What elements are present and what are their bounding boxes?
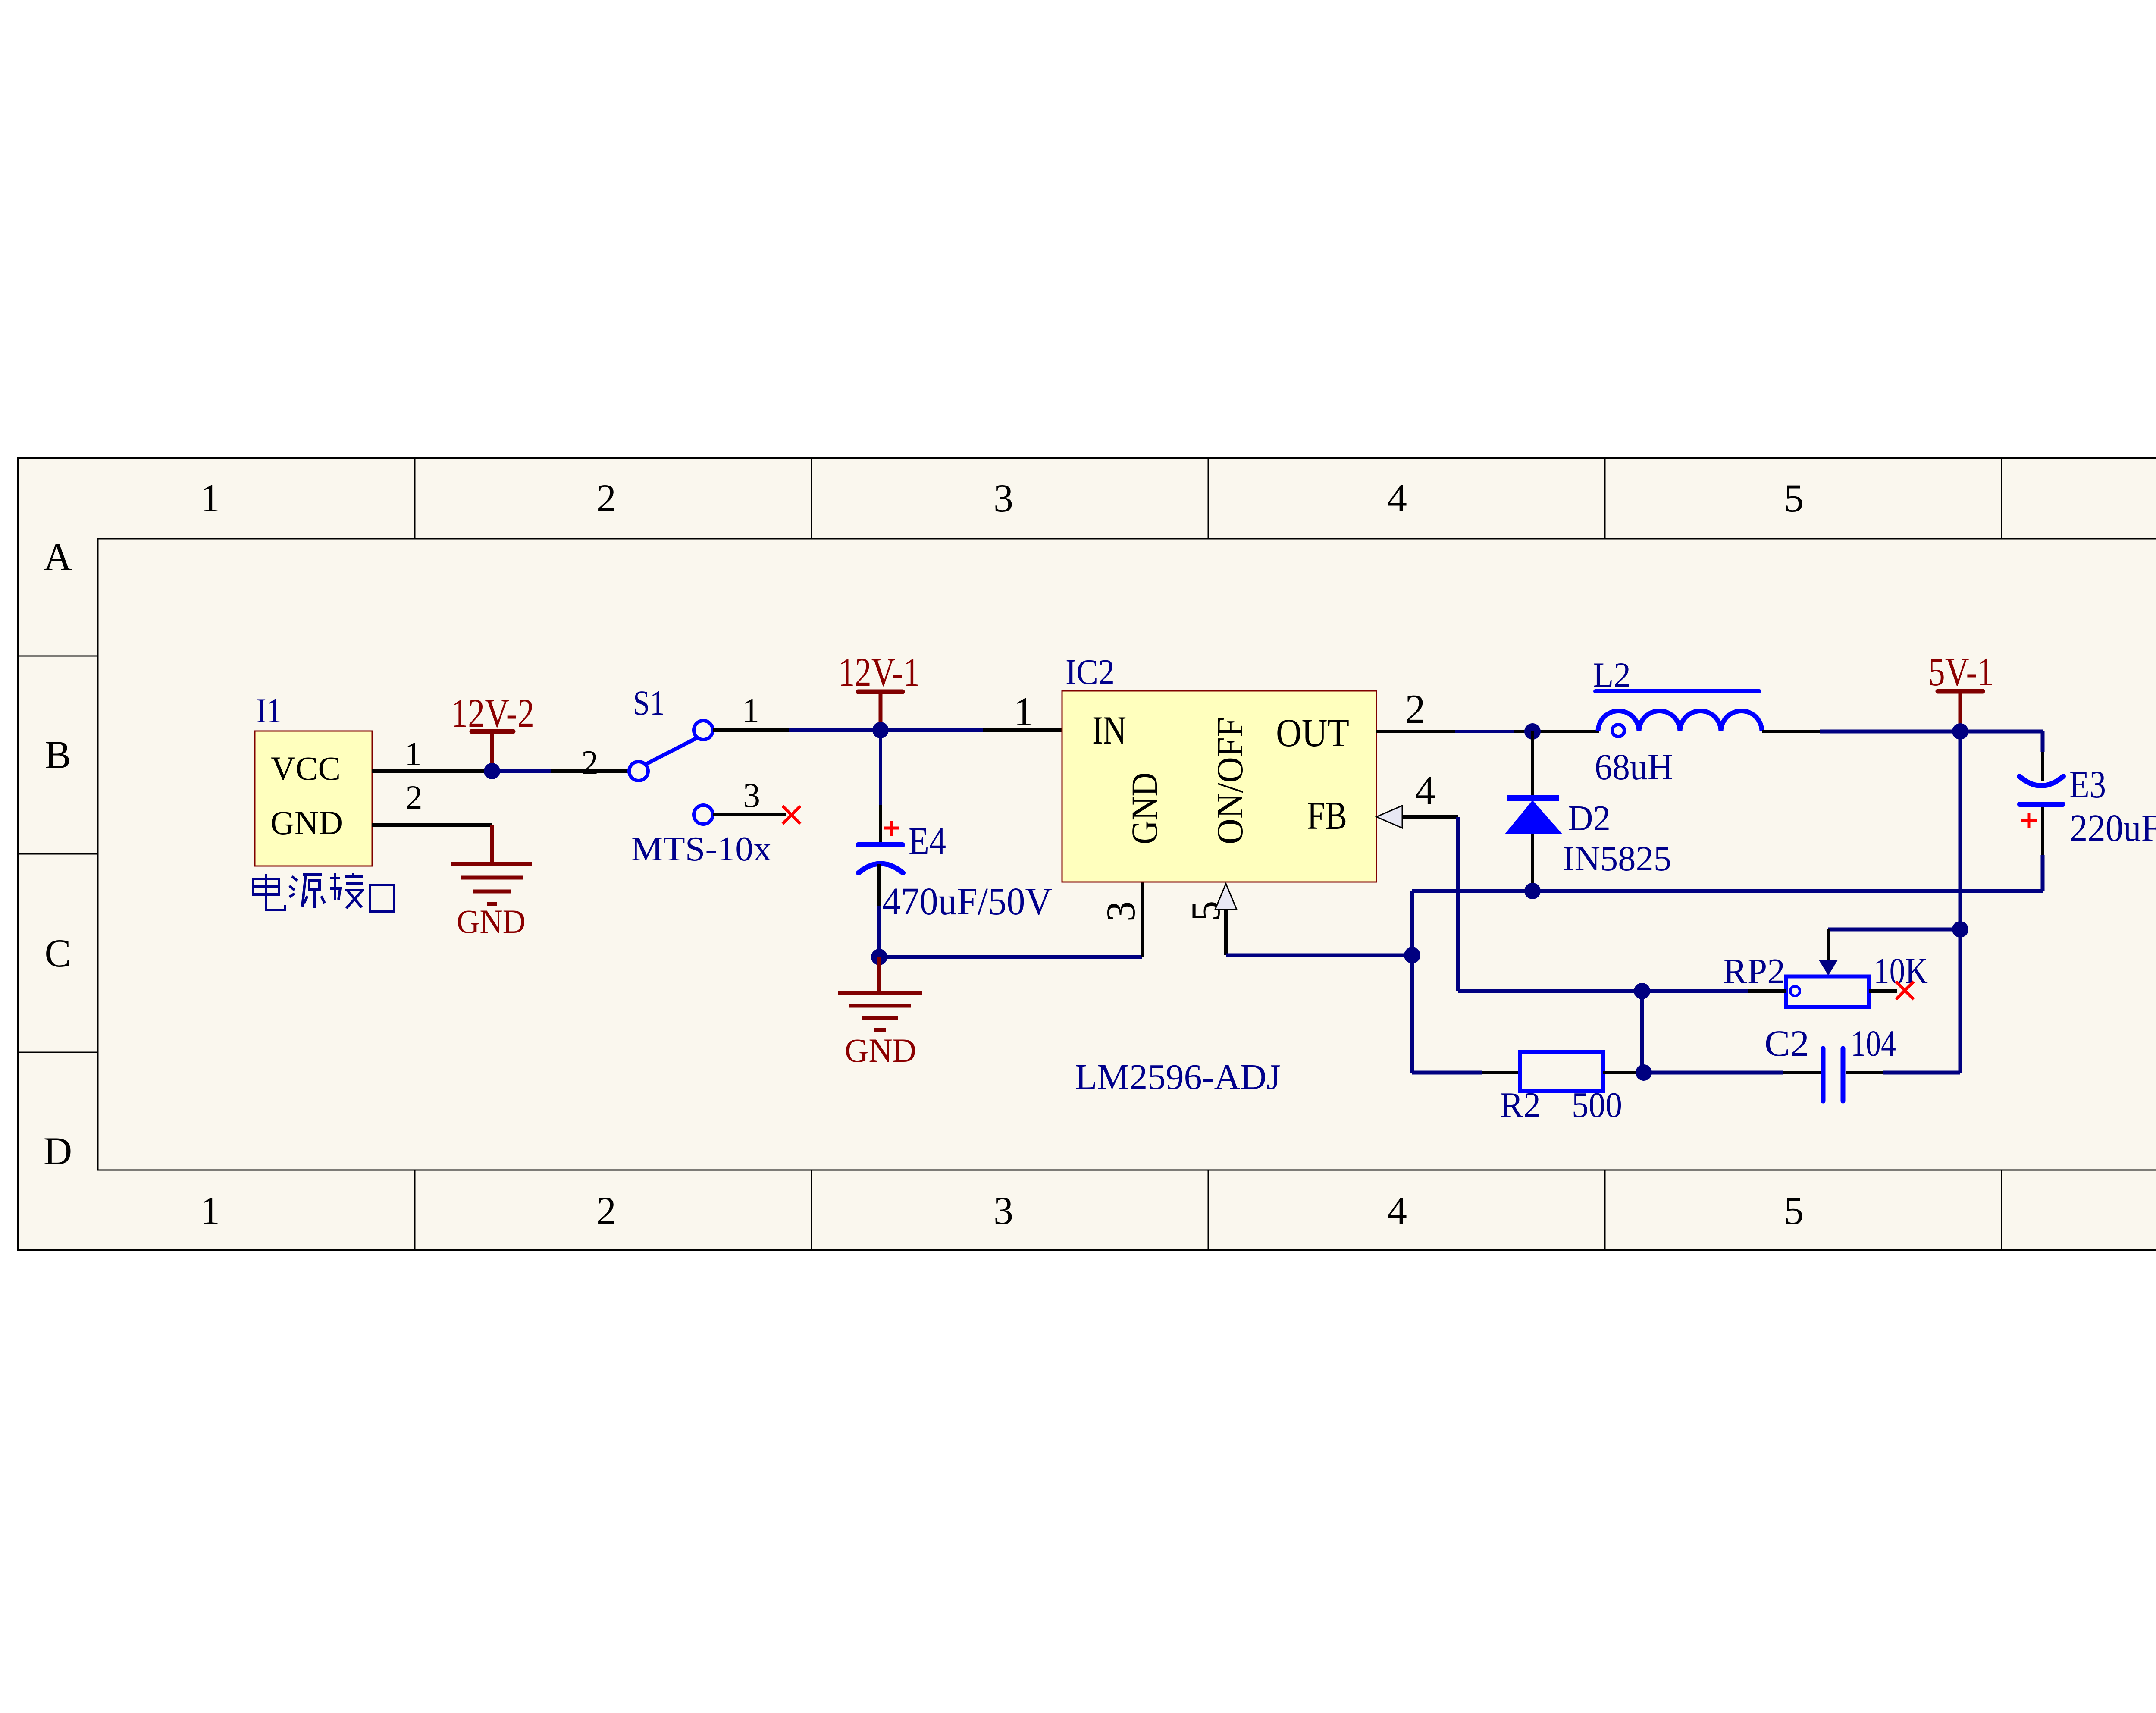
inner drawing border frame [98, 539, 2156, 1170]
wire RP2 wiper to 5V net [1828, 929, 1960, 962]
svg-text:4: 4 [1415, 768, 1435, 813]
wire 5V-1 node down to C2 net [1959, 731, 1962, 1073]
svg-text:OUT: OUT [1276, 711, 1349, 755]
diode D2 cathode bar [1507, 795, 1559, 801]
svg-text:GND: GND [845, 1032, 916, 1069]
wire D2 cathode stub [1531, 731, 1534, 797]
svg-text:MTS-10x: MTS-10x [631, 830, 771, 868]
diode D2 designator label [1568, 798, 1611, 838]
capacitor C2 value label 104 [1851, 1023, 1896, 1064]
power net label 5V-1 [1928, 649, 1994, 694]
svg-text:IN5825: IN5825 [1563, 839, 1671, 878]
diode D2 triangle [1506, 801, 1561, 834]
switch S1 pin1 terminal [694, 721, 713, 740]
capacitor E4 plus sign [884, 821, 899, 836]
wire 12V-1 junction to IC2 IN pin [881, 728, 1062, 732]
IC2 pin name GND (rotated) [1124, 772, 1165, 844]
capacitor E3 designator label [2069, 763, 2106, 806]
junction at 5V-1 node [1952, 723, 1968, 740]
no-connect X at RP2 [1896, 982, 1914, 999]
frame column labels bottom [200, 1189, 2156, 1233]
frame column labels top [200, 476, 2156, 520]
connector I1 pin number 2 [406, 778, 423, 816]
connector I1 pin name VCC [271, 750, 341, 787]
junction at OUT/D2 node [1524, 723, 1541, 740]
svg-text:C2: C2 [1764, 1023, 1809, 1064]
connector I1 body [255, 731, 372, 866]
svg-text:2: 2 [596, 476, 616, 520]
svg-text:GND: GND [1124, 772, 1165, 844]
wire FB node down to R2 output node [1640, 991, 1644, 1073]
wire R2 right to junction [1603, 1071, 1644, 1074]
switch S1 lever [642, 737, 699, 766]
svg-text:5V-1: 5V-1 [1928, 649, 1994, 694]
wire ground-net vertical (left) [1410, 891, 1414, 1073]
ground symbol at I1 [451, 825, 532, 904]
svg-text:D2: D2 [1568, 798, 1611, 838]
svg-text:1: 1 [742, 692, 759, 730]
resistor R2 body [1520, 1052, 1603, 1091]
wire R2 junction to C2 left plate [1644, 1071, 1821, 1075]
power symbol 12V-2 [472, 731, 513, 769]
IC2 pin number 4 [1415, 768, 1435, 813]
potentiometer RP2 wiper arrow [1819, 960, 1838, 976]
frame column ticks bottom [415, 1170, 2002, 1250]
switch S1 pin number 3 [743, 777, 760, 815]
svg-text:I1: I1 [256, 691, 282, 730]
IC2 FB input arrow (pin 4) [1376, 806, 1402, 828]
svg-text:C: C [44, 931, 71, 975]
ground symbol at E4 [838, 957, 922, 1030]
svg-text:R2: R2 [1500, 1085, 1541, 1125]
svg-text:5: 5 [1784, 476, 1804, 520]
svg-text:3: 3 [993, 476, 1013, 520]
regulator IC2 body [1062, 691, 1376, 882]
svg-text:3: 3 [1098, 901, 1144, 922]
svg-text:12V-2: 12V-2 [451, 691, 534, 736]
wire I1 pin2 to ground [372, 823, 492, 827]
svg-text:2: 2 [1405, 686, 1426, 732]
junction at R2/C2 node [1636, 1064, 1652, 1081]
svg-text:500: 500 [1572, 1085, 1622, 1125]
comment label 电源接口 (power interface) [253, 873, 394, 912]
capacitor E3 top curved plate [2019, 776, 2063, 786]
junction at D2 anode node [1524, 883, 1541, 899]
capacitor E4 value label 470uF/50V [882, 880, 1052, 923]
svg-text:2: 2 [596, 1189, 616, 1233]
svg-text:LM2596-ADJ: LM2596-ADJ [1075, 1057, 1281, 1097]
capacitor E3 bottom plate [2020, 802, 2063, 807]
capacitor C2 left plate [1821, 1048, 1826, 1101]
svg-text:L2: L2 [1593, 655, 1631, 694]
wire FB pin stub [1402, 815, 1458, 819]
IC2 pin name OUT [1276, 711, 1349, 755]
switch S1 pin3 terminal [694, 805, 713, 824]
switch S1 designator label [633, 683, 665, 722]
wire S1 pin1 to 12V-1 junction [713, 728, 881, 732]
potentiometer RP2 body [1786, 976, 1869, 1007]
junction at 12V-1 node [872, 722, 889, 738]
IC2 ON/OFF input arrow (pin 5) [1215, 884, 1237, 910]
power net label 12V-2 [451, 691, 534, 736]
svg-text:E4: E4 [909, 820, 946, 863]
wire E3 top stub [2041, 731, 2045, 781]
svg-text:3: 3 [993, 1189, 1013, 1233]
IC2 pin number 3 (rotated) [1098, 901, 1144, 922]
svg-text:B: B [44, 733, 71, 777]
inductor L2 polarity dot [1612, 725, 1624, 737]
frame column ticks top [415, 458, 2002, 539]
svg-text:A: A [44, 535, 72, 579]
inductor L2 designator label [1593, 655, 1631, 694]
connector I1 pin name GND [270, 804, 343, 841]
potentiometer RP2 value label 10K [1874, 950, 1928, 991]
svg-text:2: 2 [406, 778, 423, 816]
svg-text:VCC: VCC [271, 750, 341, 787]
wire ground-net to R2 left [1412, 1071, 1520, 1075]
frame row labels left [44, 535, 72, 1173]
wire L2 to 5V-1 junction and E3 corner [1762, 730, 2043, 733]
resistor R2 value label 500 [1572, 1085, 1622, 1125]
svg-text:E3: E3 [2069, 763, 2106, 806]
capacitor C2 designator label [1764, 1023, 1809, 1064]
wire D2 anode / E3 negative horizontal net [1412, 889, 2043, 893]
junction at 12V-2 node [484, 763, 500, 779]
frame row ticks left [18, 656, 98, 1052]
power symbol 5V-1 [1938, 691, 1983, 730]
svg-text:GND: GND [457, 903, 526, 940]
capacitor C2 right plate [1841, 1048, 1846, 1101]
resistor R2 designator label [1500, 1085, 1541, 1125]
switch S1 pin number 1 [742, 692, 759, 730]
svg-text:1: 1 [405, 735, 422, 772]
outer sheet border frame [18, 458, 2156, 1250]
regulator IC2 designator label [1065, 652, 1115, 692]
wire ON/OFF to ground-net vertical [1226, 954, 1412, 957]
capacitor E4 bottom curved plate [859, 864, 903, 873]
svg-text:68uH: 68uH [1595, 746, 1673, 787]
IC2 pin name IN [1092, 708, 1126, 752]
inductor L2 top bar [1595, 689, 1759, 693]
svg-text:104: 104 [1851, 1023, 1896, 1064]
capacitor E4 designator label [909, 820, 946, 863]
capacitor E4 top plate [858, 842, 903, 847]
svg-text:S1: S1 [633, 683, 665, 722]
junction at RP2 wiper node [1952, 921, 1968, 938]
svg-text:2: 2 [581, 744, 599, 782]
connector I1 designator label I1 [256, 691, 282, 730]
power net label 12V-1 [838, 650, 920, 695]
wire ON/OFF pin stub down [1224, 910, 1228, 955]
IC2 pin number 2 [1405, 686, 1426, 732]
inductor L2 winding arcs [1598, 711, 1762, 731]
svg-text:3: 3 [743, 777, 760, 815]
junction at E4 ground node [871, 949, 887, 965]
potentiometer RP2 terminal ring [1790, 986, 1800, 996]
svg-text:RP2: RP2 [1723, 951, 1785, 991]
wire 12V-2 junction to S1 pin2 [492, 769, 629, 773]
svg-text:ON/OFF: ON/OFF [1209, 717, 1250, 844]
svg-text:D: D [44, 1129, 72, 1173]
IC2 pin name FB [1307, 794, 1347, 838]
wire IC2 OUT pin to D2 junction and L2 [1376, 730, 1599, 733]
switch S1 pin number 2 [581, 744, 599, 782]
wire 12V-1 junction down to capacitor E4 [879, 730, 882, 843]
wire E4 junction to IC2 GND pin3 [879, 882, 1142, 957]
svg-text:220uF/50V: 220uF/50V [2070, 807, 2156, 850]
svg-text:1: 1 [200, 1189, 220, 1233]
IC2 pin number 5 (rotated) [1183, 901, 1228, 922]
svg-text:4: 4 [1387, 1189, 1407, 1233]
ground label GND at I1 [457, 903, 526, 940]
inductor L2 value label 68uH [1595, 746, 1673, 787]
IC2 pin name ON/OFF (rotated) [1209, 717, 1250, 844]
svg-text:FB: FB [1307, 794, 1347, 838]
wire I1 pin1 to 12V-2 junction [372, 769, 492, 773]
no-connect X at S1 pin3 [783, 806, 800, 824]
capacitor E3 value label 220uF/50V [2070, 807, 2156, 850]
capacitor E3 plus sign [2021, 813, 2037, 828]
potentiometer RP2 designator label [1723, 951, 1785, 991]
svg-text:5: 5 [1784, 1189, 1804, 1233]
ground label GND at E4 [845, 1032, 916, 1069]
IC2 pin number 1 [1013, 689, 1034, 734]
svg-text:12V-1: 12V-1 [838, 650, 920, 695]
wire D2 anode stub [1531, 834, 1534, 891]
svg-text:IN: IN [1092, 708, 1126, 752]
svg-text:1: 1 [200, 476, 220, 520]
diode D2 value label IN5825 [1563, 839, 1671, 878]
junction at FB/R2 node [1634, 983, 1650, 999]
wire E3 bottom stub to ground-net [2041, 807, 2044, 891]
wire FB net vertical and to RP2 left [1458, 817, 1786, 991]
wire C2 right plate to 5V net corner [1846, 1071, 1960, 1074]
wire RP2 right stub [1869, 989, 1897, 993]
svg-text:GND: GND [270, 804, 343, 841]
wire E4 bottom to ground junction [877, 864, 881, 957]
regulator IC2 part label LM2596-ADJ [1075, 1057, 1281, 1097]
svg-text:1: 1 [1013, 689, 1034, 734]
svg-text:IC2: IC2 [1065, 652, 1115, 692]
svg-text:4: 4 [1387, 476, 1407, 520]
svg-text:470uF/50V: 470uF/50V [882, 880, 1052, 923]
wire S1 pin3 stub [713, 813, 786, 816]
power symbol 12V-1 [858, 692, 903, 729]
junction at ON/OFF ground-net [1404, 947, 1420, 963]
connector I1 pin number 1 [405, 735, 422, 772]
switch S1 part label MTS-10x [631, 830, 771, 868]
switch S1 pin2 terminal [629, 762, 648, 781]
